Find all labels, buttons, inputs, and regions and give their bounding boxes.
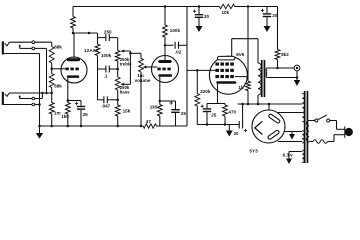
- wire B+ top rail: [73, 6, 219, 8]
- potentiometer 250k treble: [117, 38, 119, 51]
- svg-text:68k: 68k: [54, 45, 62, 50]
- wire J2 tip line to grid bus: [10, 92, 52, 94]
- wire treble to .1 junction: [117, 61, 119, 77]
- svg-text:8k2: 8k2: [281, 52, 289, 57]
- wire ground bus right: [197, 124, 239, 126]
- wire ground bus left: [40, 125, 144, 127]
- resistor 1k5 (V1a cathode): [65, 103, 70, 115]
- node 220k junction: [196, 69, 199, 72]
- resistor 1k5 (V1b cathode): [157, 105, 162, 117]
- node V1a plate node: [72, 32, 75, 35]
- wiper volume to V1b grid: [143, 66, 157, 68]
- contact J2 sleeve: [32, 103, 35, 106]
- capacitor 20uF (filter, left): [198, 7, 200, 15]
- wire V2 grid line: [187, 69, 215, 71]
- contact J1 tip: [32, 41, 35, 44]
- wire V2 cathode lead: [217, 84, 219, 104]
- wire B+ line L1: [238, 103, 303, 105]
- svg-text:47: 47: [146, 119, 152, 124]
- switch power: [309, 120, 315, 122]
- wire wiper bus to volume: [130, 52, 141, 54]
- resistor 15k: [115, 105, 120, 116]
- resistor 8k2 (feedback): [277, 7, 279, 50]
- ground (filter cap right): [266, 22, 268, 27]
- capacitor 20uF (main filter): [238, 121, 240, 129]
- input jack J1 (top): [2, 41, 4, 54]
- wire 6.3V lead: [289, 151, 302, 153]
- capacitor .047: [98, 99, 104, 101]
- plate 5Y3 lower diagonal: [267, 130, 279, 140]
- node primary-B+ junction: [257, 103, 260, 106]
- wire J1 switch to down-bus: [35, 47, 47, 49]
- wire left stack down to .047: [97, 69, 99, 100]
- resistor 470 (V2 cathode): [223, 105, 228, 116]
- wire J2 sleeve to ground riser: [35, 104, 40, 106]
- cathode V1b: [158, 74, 172, 77]
- transformer T1 output primary: [257, 62, 259, 64]
- cathode V1a: [67, 75, 79, 78]
- node bus2 junctions: [206, 123, 209, 126]
- svg-text:.1: .1: [104, 73, 108, 78]
- capacitor .1 (bass): [98, 68, 106, 70]
- node .047 junction: [116, 99, 119, 102]
- wire J1 switch line: [20, 47, 32, 49]
- node 5Y3 top junction: [268, 103, 271, 106]
- wire J1 tip line: [10, 41, 32, 43]
- wire plate node to tone stack: [73, 32, 98, 34]
- contact J1 switch: [32, 47, 35, 50]
- wire J1 sleeve: [4, 53, 40, 55]
- svg-text:15k: 15k: [123, 108, 131, 113]
- capacitor 250pF (treble): [97, 33, 99, 44]
- wire ground bus to feedback riser: [157, 125, 188, 127]
- wire J2 sleeve line: [4, 104, 32, 106]
- svg-text:100k: 100k: [170, 28, 181, 33]
- plate 5Y3 upper diagonal: [268, 114, 280, 124]
- wire riser corner to ground bus: [186, 125, 188, 127]
- potentiometer 250k bass: [115, 77, 120, 90]
- svg-text:12AX7: 12AX7: [84, 48, 99, 53]
- node B+ node: [247, 103, 250, 106]
- node J2 switch junction: [41, 92, 44, 95]
- node wiper-volume junction: [129, 52, 132, 55]
- wire V1a cathode lead: [67, 78, 69, 101]
- wire 5Y3 filament upper: [284, 131, 302, 133]
- fuse: [309, 141, 313, 143]
- wire 5Y3 filament lower: [278, 141, 302, 143]
- node speaker ground junction: [296, 76, 299, 79]
- svg-text:250: 250: [104, 29, 112, 34]
- wire secondary bottom: [267, 77, 297, 79]
- node bus junctions: [50, 125, 53, 128]
- resistor 68k (upper input): [49, 47, 54, 64]
- wire speaker jack sleeve: [296, 71, 298, 78]
- grid V2 row3: [215, 75, 219, 78]
- svg-text:470: 470: [228, 109, 236, 114]
- wiper bass: [121, 83, 130, 85]
- svg-text:68k: 68k: [54, 84, 62, 89]
- resistor 220k (V2 grid): [196, 70, 198, 93]
- wire 5Y3 plate lead: [268, 104, 270, 110]
- wire plate to output transformer: [232, 38, 258, 40]
- svg-text:25: 25: [181, 111, 187, 116]
- node V1b cathode junction: [159, 100, 162, 103]
- node V1a grid junction: [50, 68, 53, 71]
- wire 100k to .1 cap: [97, 56, 99, 70]
- contact J2 switch tick: [19, 96, 21, 98]
- capacitor 20uF (filter, right): [266, 7, 268, 14]
- svg-text:20: 20: [204, 14, 210, 19]
- wire V1b plate lead: [164, 45, 166, 60]
- wire V1a plate lead: [73, 33, 75, 58]
- wire coupling cap down riser: [186, 7, 188, 127]
- transformer T2 5V winding: [302, 131, 304, 144]
- wire J2 switch link: [35, 98, 43, 100]
- wire cathode junction bar: [207, 103, 225, 105]
- resistor plate load V1a (unlabeled): [72, 7, 74, 17]
- wire screen lead: [235, 76, 248, 78]
- wire filter cap to B+ riser: [242, 104, 244, 121]
- svg-text:1k5: 1k5: [61, 114, 69, 119]
- wire fuse to plug: [327, 141, 334, 143]
- transistor V2 power tube 6V6: [209, 56, 247, 94]
- node feedback junction: [276, 67, 279, 70]
- svg-text:.02: .02: [175, 50, 182, 55]
- capacitor .02 (coupling): [165, 44, 174, 46]
- svg-text:1k5: 1k5: [150, 105, 158, 110]
- grid V1a: [65, 68, 68, 71]
- svg-text:100k: 100k: [101, 53, 112, 58]
- resistor 1k (screen): [247, 77, 249, 82]
- wire V2 plate lead up: [231, 39, 233, 57]
- node .1 junction: [116, 68, 119, 71]
- wire screen feed vertical from rail: [247, 7, 249, 77]
- wire J2 switch line: [20, 98, 32, 100]
- cathode V2: [216, 81, 236, 84]
- ground (filament center): [291, 132, 293, 135]
- capacitor 25uF (V1a cathode bypass): [80, 101, 82, 106]
- transformer T2 power core: [304, 91, 306, 163]
- op-amp V1a triode 12AX7 first half: [61, 57, 87, 83]
- capacitor 25uF (V2 cathode bypass): [206, 104, 208, 109]
- wire primary bottom to B+ line: [257, 95, 259, 104]
- speaker jack: [294, 65, 300, 71]
- svg-text:10k: 10k: [222, 10, 230, 15]
- ground (main bus): [39, 126, 41, 133]
- grid V1b: [157, 68, 160, 71]
- grid V2 row1: [215, 63, 219, 66]
- node grid-bus junction: [50, 92, 53, 95]
- svg-text:.047: .047: [101, 104, 110, 109]
- capacitor 25uF (V1b cathode bypass): [175, 101, 177, 109]
- resistor 47 (hum/feedback, in bus): [143, 124, 157, 128]
- svg-text:6.3 v: 6.3 v: [283, 153, 294, 158]
- wire wiper bus: [129, 51, 131, 84]
- wire V1b cathode lead: [159, 77, 161, 101]
- resistor 100k (tone): [95, 44, 100, 56]
- wire volume bottom to ground bus: [140, 72, 142, 126]
- wire cathode to bypass cap: [68, 100, 81, 102]
- svg-text:20: 20: [234, 131, 239, 136]
- op-amp V1b triode 12AX7 second half: [152, 56, 179, 83]
- wire bass to .047 junction: [117, 90, 119, 105]
- transistor V3 rectifier 5Y3: [252, 110, 285, 143]
- wire switch to plug: [330, 120, 337, 122]
- node sleeve-riser junction: [38, 103, 41, 106]
- filament 5Y3 chevron: [255, 121, 262, 134]
- ground (speaker): [296, 78, 298, 81]
- contact J2 switch: [32, 97, 35, 100]
- transformer T1 secondary: [266, 68, 267, 78]
- wire J1 tip to 68k: [35, 41, 52, 43]
- node rail junction at 100k plate resistor: [164, 5, 167, 8]
- plug AC: [344, 126, 346, 138]
- wire V1a grid lead: [52, 68, 65, 70]
- plate V1a: [67, 58, 80, 61]
- plate V2 capsule: [218, 56, 235, 60]
- transformer T1 core: [261, 60, 263, 97]
- node J1-switch-bus junction: [45, 92, 48, 95]
- svg-text:5Y3: 5Y3: [249, 149, 258, 154]
- potentiometer 1M volume: [139, 58, 144, 72]
- resistor 100k (V1b plate load): [164, 7, 166, 26]
- wire HV line L2: [277, 112, 302, 114]
- svg-text:6V6: 6V6: [236, 52, 245, 57]
- input jack J2 (bottom): [2, 92, 4, 105]
- svg-text:25: 25: [211, 112, 217, 117]
- svg-text:220k: 220k: [200, 89, 211, 94]
- wiper treble: [121, 50, 130, 52]
- wire ground riser from jacks: [39, 54, 41, 127]
- grid V2 row2: [215, 69, 219, 72]
- transformer T2 6.3V winding: [302, 150, 304, 163]
- svg-text:1m: 1m: [54, 111, 61, 116]
- wire secondary top to speaker jack: [267, 67, 294, 69]
- svg-text:1k: 1k: [238, 85, 244, 90]
- plate V1b: [158, 60, 171, 63]
- svg-text:volume: volume: [135, 78, 151, 83]
- transformer T2 primary winding: [306, 121, 309, 143]
- ground (filter cap left): [198, 22, 200, 27]
- node bus-riser corner: [38, 125, 41, 128]
- ground (V2 cathode bus): [228, 125, 230, 131]
- contact J1 switch tick: [19, 46, 21, 49]
- svg-text:bass: bass: [120, 90, 131, 95]
- wire cathode to bypass cap 2: [160, 100, 176, 102]
- resistor 1M (grid leak): [51, 93, 53, 103]
- node riser-B+ junction: [241, 103, 244, 106]
- resistor 10k (rail dropping resistor): [219, 4, 234, 8]
- transformer T2 HV secondary: [302, 94, 304, 123]
- node V1b plate node: [164, 44, 167, 47]
- node rail junction at filter cap 20uF: [198, 5, 201, 8]
- svg-text:25: 25: [83, 112, 89, 117]
- node rail junction at screen feed: [247, 5, 250, 8]
- resistor 68k (lower input): [51, 69, 53, 74]
- ground (6.3V winding): [288, 152, 290, 159]
- node cathode junction: [67, 99, 70, 102]
